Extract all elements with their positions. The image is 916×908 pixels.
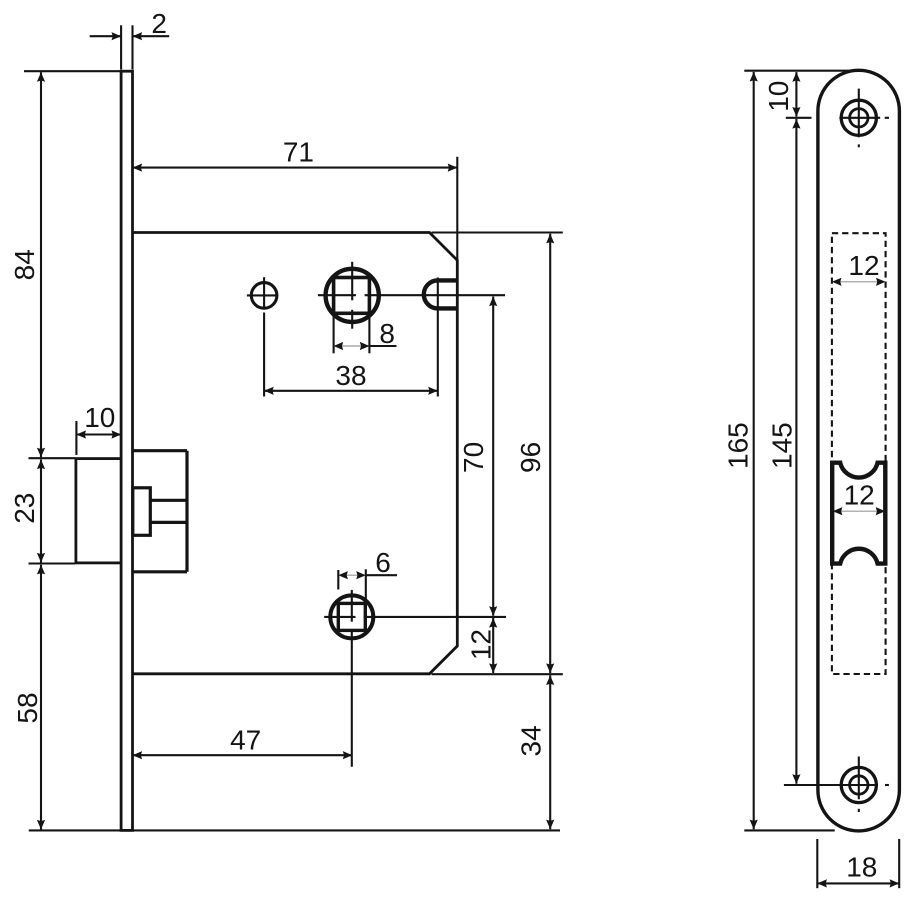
svg-text:18: 18 [846,852,877,883]
svg-text:70: 70 [458,442,489,473]
svg-text:84: 84 [9,249,40,280]
svg-text:165: 165 [723,422,754,469]
svg-text:2: 2 [151,8,167,39]
svg-text:6: 6 [375,547,391,578]
svg-text:47: 47 [230,724,261,755]
svg-text:34: 34 [516,725,547,756]
svg-text:8: 8 [379,318,395,349]
svg-text:38: 38 [335,360,366,391]
svg-text:145: 145 [766,422,797,469]
svg-text:58: 58 [12,692,43,723]
svg-text:10: 10 [763,81,794,112]
svg-text:96: 96 [515,442,546,473]
svg-text:71: 71 [283,136,314,167]
svg-text:10: 10 [84,402,115,433]
svg-text:12: 12 [466,629,497,660]
svg-text:12: 12 [844,480,875,511]
svg-text:12: 12 [848,250,879,281]
svg-text:23: 23 [9,493,40,524]
